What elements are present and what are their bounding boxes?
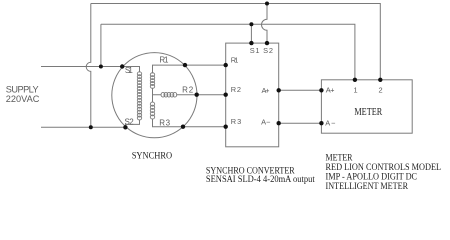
svg-text:A+: A+ [262,86,270,95]
wire: top bus line (supply bottom to converter S2 and meter 2) [91,4,381,80]
label SUPPLY 220VAC [6,85,40,104]
rotor winding R2 coil [161,92,177,97]
terminal: converter S1 [249,41,253,45]
terminal: meter 1 [353,78,357,82]
svg-text:RED LION CONTROLS MODEL: RED LION CONTROLS MODEL [326,162,442,172]
svg-text:A−: A− [261,118,270,127]
svg-text:S2: S2 [125,118,135,127]
synchro converter box U2 [226,43,279,147]
svg-text:2: 2 [379,85,383,94]
svg-text:R3: R3 [231,117,242,126]
terminal: converter S2 [265,41,269,45]
svg-text:SYNCHRO: SYNCHRO [132,152,173,162]
wire: R1 coil bottom to star point [152,88,154,103]
svg-text:SENSAI SLD-4 4-20mA output: SENSAI SLD-4 4-20mA output [206,174,315,184]
svg-text:A+: A+ [326,85,335,94]
rotor winding R3 coil [150,102,154,119]
svg-text:R1: R1 [159,56,169,65]
terminal: converter R2 [224,93,228,97]
node R3 on circle [181,125,185,129]
wire: S1 dot to stator coil top [122,67,139,73]
rotor winding R1 coil [150,73,154,89]
synchro pin labels [125,56,194,128]
wire: star point to R2 coil and on to converter R2 [153,94,226,96]
label SYNCHRO CONVERTER / SENSAI SLD-4 [206,166,315,185]
wire: inner vertical drop to top supply line [100,24,102,66]
converter pin labels [231,46,273,127]
node R2 on circle [195,93,199,97]
node R1 on circle [183,63,187,67]
svg-text:220VAC: 220VAC [6,94,40,104]
svg-text:1: 1 [354,85,358,94]
junction: inner vertical to top supply [99,65,103,69]
terminal: meter 2 [378,78,382,82]
svg-text:R2: R2 [182,85,194,94]
label METER / RED LION CONTROLS [326,152,442,191]
svg-text:A−: A− [325,118,335,127]
terminal: converter R3 [224,125,228,129]
meter pin labels [325,85,382,127]
wire: stator coil bottom to S2 dot [125,120,139,128]
terminal: converter A- [277,121,281,125]
svg-text:METER: METER [326,152,353,162]
stator winding S1-S2 coil [137,72,141,120]
terminal: converter A+ [277,88,281,92]
synchro U1 circle body [112,53,197,138]
terminal: converter R1 [224,63,228,67]
junction: S2 tap on top bus [265,2,269,6]
svg-text:INTELLIGENT METER: INTELLIGENT METER [326,181,409,191]
wire: bottom supply line [41,126,125,128]
svg-text:R2: R2 [231,85,241,94]
svg-text:R1: R1 [231,56,239,65]
junction: S1 tap on second bus [249,22,253,26]
wire: converter A+ to meter A+ [279,89,322,91]
wire: second bus line (supply top to converter S1 and meter 1) [101,24,355,80]
svg-text:S1 S2: S1 S2 [250,46,273,55]
wire: R3 coil bottom to circle dot to converter R3 [153,119,226,127]
wire: top supply line [41,66,122,68]
wire: converter A- to meter A- [279,122,322,124]
wire: converter S2 drop with hop over second bus line [262,4,268,44]
svg-text:S1: S1 [125,66,133,75]
wire: converter S1 drop [250,24,252,43]
terminal: meter A- [319,121,323,125]
node S2 [123,125,127,129]
wire: rotor R1 lead (corner to circle dot to converter R1) [153,65,226,73]
svg-text:METER: METER [354,107,382,118]
svg-text:R3: R3 [159,118,170,127]
terminal: meter A+ [319,88,323,92]
junction: outer vertical to bottom supply [89,125,93,129]
node S1 [120,64,124,68]
meter box U3 [321,80,412,133]
wire: outer vertical drop with hop over top supply line [86,4,91,128]
